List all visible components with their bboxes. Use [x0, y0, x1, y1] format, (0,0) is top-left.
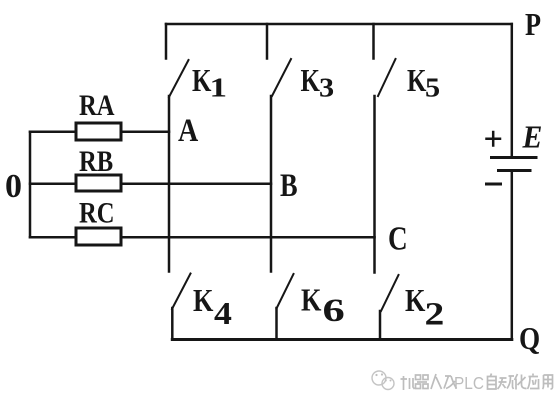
- svg-text:K: K: [405, 284, 426, 319]
- watermark icon eye dots: [375, 374, 377, 376]
- wire right vertical upper to battery: [511, 24, 514, 157]
- watermark char ji2: [444, 376, 457, 389]
- wire column3 lower vertical: [379, 311, 382, 340]
- switch K3 blade: [272, 59, 291, 96]
- svg-text:B: B: [280, 167, 298, 203]
- svg-text:RC: RC: [79, 196, 115, 229]
- wire RA left stub: [30, 130, 76, 133]
- wire node A row: [121, 130, 169, 133]
- watermark char ren: [431, 374, 442, 389]
- watermark char ji: [401, 376, 415, 390]
- watermark: [372, 371, 394, 390]
- battery E top plate (+): [492, 156, 537, 159]
- resistor RA body: [76, 123, 121, 140]
- svg-text:4: 4: [214, 297, 232, 332]
- svg-text:PLC: PLC: [454, 374, 484, 393]
- switch K2 blade: [381, 275, 399, 311]
- wire column3 middle vertical: [373, 96, 376, 273]
- watermark char ying: [528, 374, 540, 390]
- switch K3 top stub: [266, 24, 269, 59]
- watermark char hua: [515, 374, 527, 390]
- watermark char qi: [416, 375, 421, 380]
- watermark char zi: [488, 374, 497, 390]
- wire node B row: [121, 182, 271, 185]
- switch K6 blade: [277, 274, 294, 309]
- svg-text:A: A: [178, 112, 198, 149]
- svg-text:6: 6: [323, 292, 345, 328]
- wire column2 middle vertical: [270, 96, 273, 272]
- svg-text:5: 5: [425, 73, 440, 103]
- svg-text:K: K: [193, 284, 214, 319]
- svg-text:K: K: [301, 63, 321, 99]
- watermark icon chat-bubble circles: [372, 371, 386, 385]
- svg-text:RA: RA: [79, 89, 115, 122]
- battery E bottom plate (-): [499, 169, 531, 172]
- wire column2 lower vertical: [275, 308, 278, 340]
- svg-text:2: 2: [425, 296, 445, 332]
- svg-text:C: C: [388, 220, 408, 258]
- svg-text:P: P: [525, 8, 541, 43]
- battery plus sign: [487, 132, 501, 146]
- wire RB left stub from O: [30, 182, 76, 185]
- resistor RB body: [76, 175, 121, 191]
- wire top rail P: [166, 23, 512, 26]
- switch K1 top stub: [165, 24, 168, 59]
- switch K1 blade: [169, 60, 189, 97]
- switch K4 blade: [172, 274, 191, 310]
- resistor RC body: [76, 228, 121, 245]
- svg-text:K: K: [407, 63, 427, 99]
- svg-text:1: 1: [210, 72, 228, 102]
- svg-text:E: E: [522, 119, 543, 155]
- svg-text:RB: RB: [79, 145, 113, 178]
- wire RC left stub: [30, 236, 76, 239]
- wire node C row: [121, 236, 375, 239]
- svg-text:0: 0: [5, 168, 22, 205]
- svg-text:K: K: [301, 283, 322, 318]
- wire bottom rail Q: [172, 338, 512, 341]
- switch K5 blade: [378, 59, 396, 96]
- watermark char yong: [543, 375, 553, 389]
- wire right vertical lower from battery: [511, 171, 514, 340]
- watermark char dong: [498, 376, 515, 389]
- wire left vertical bus at O: [29, 132, 32, 238]
- wire column1 lower vertical: [171, 308, 174, 340]
- battery minus sign: [487, 183, 501, 186]
- wire column1 middle vertical: [168, 96, 171, 272]
- svg-text:Q: Q: [519, 322, 540, 356]
- svg-text:3: 3: [319, 73, 334, 103]
- switch K5 top stub: [372, 24, 375, 59]
